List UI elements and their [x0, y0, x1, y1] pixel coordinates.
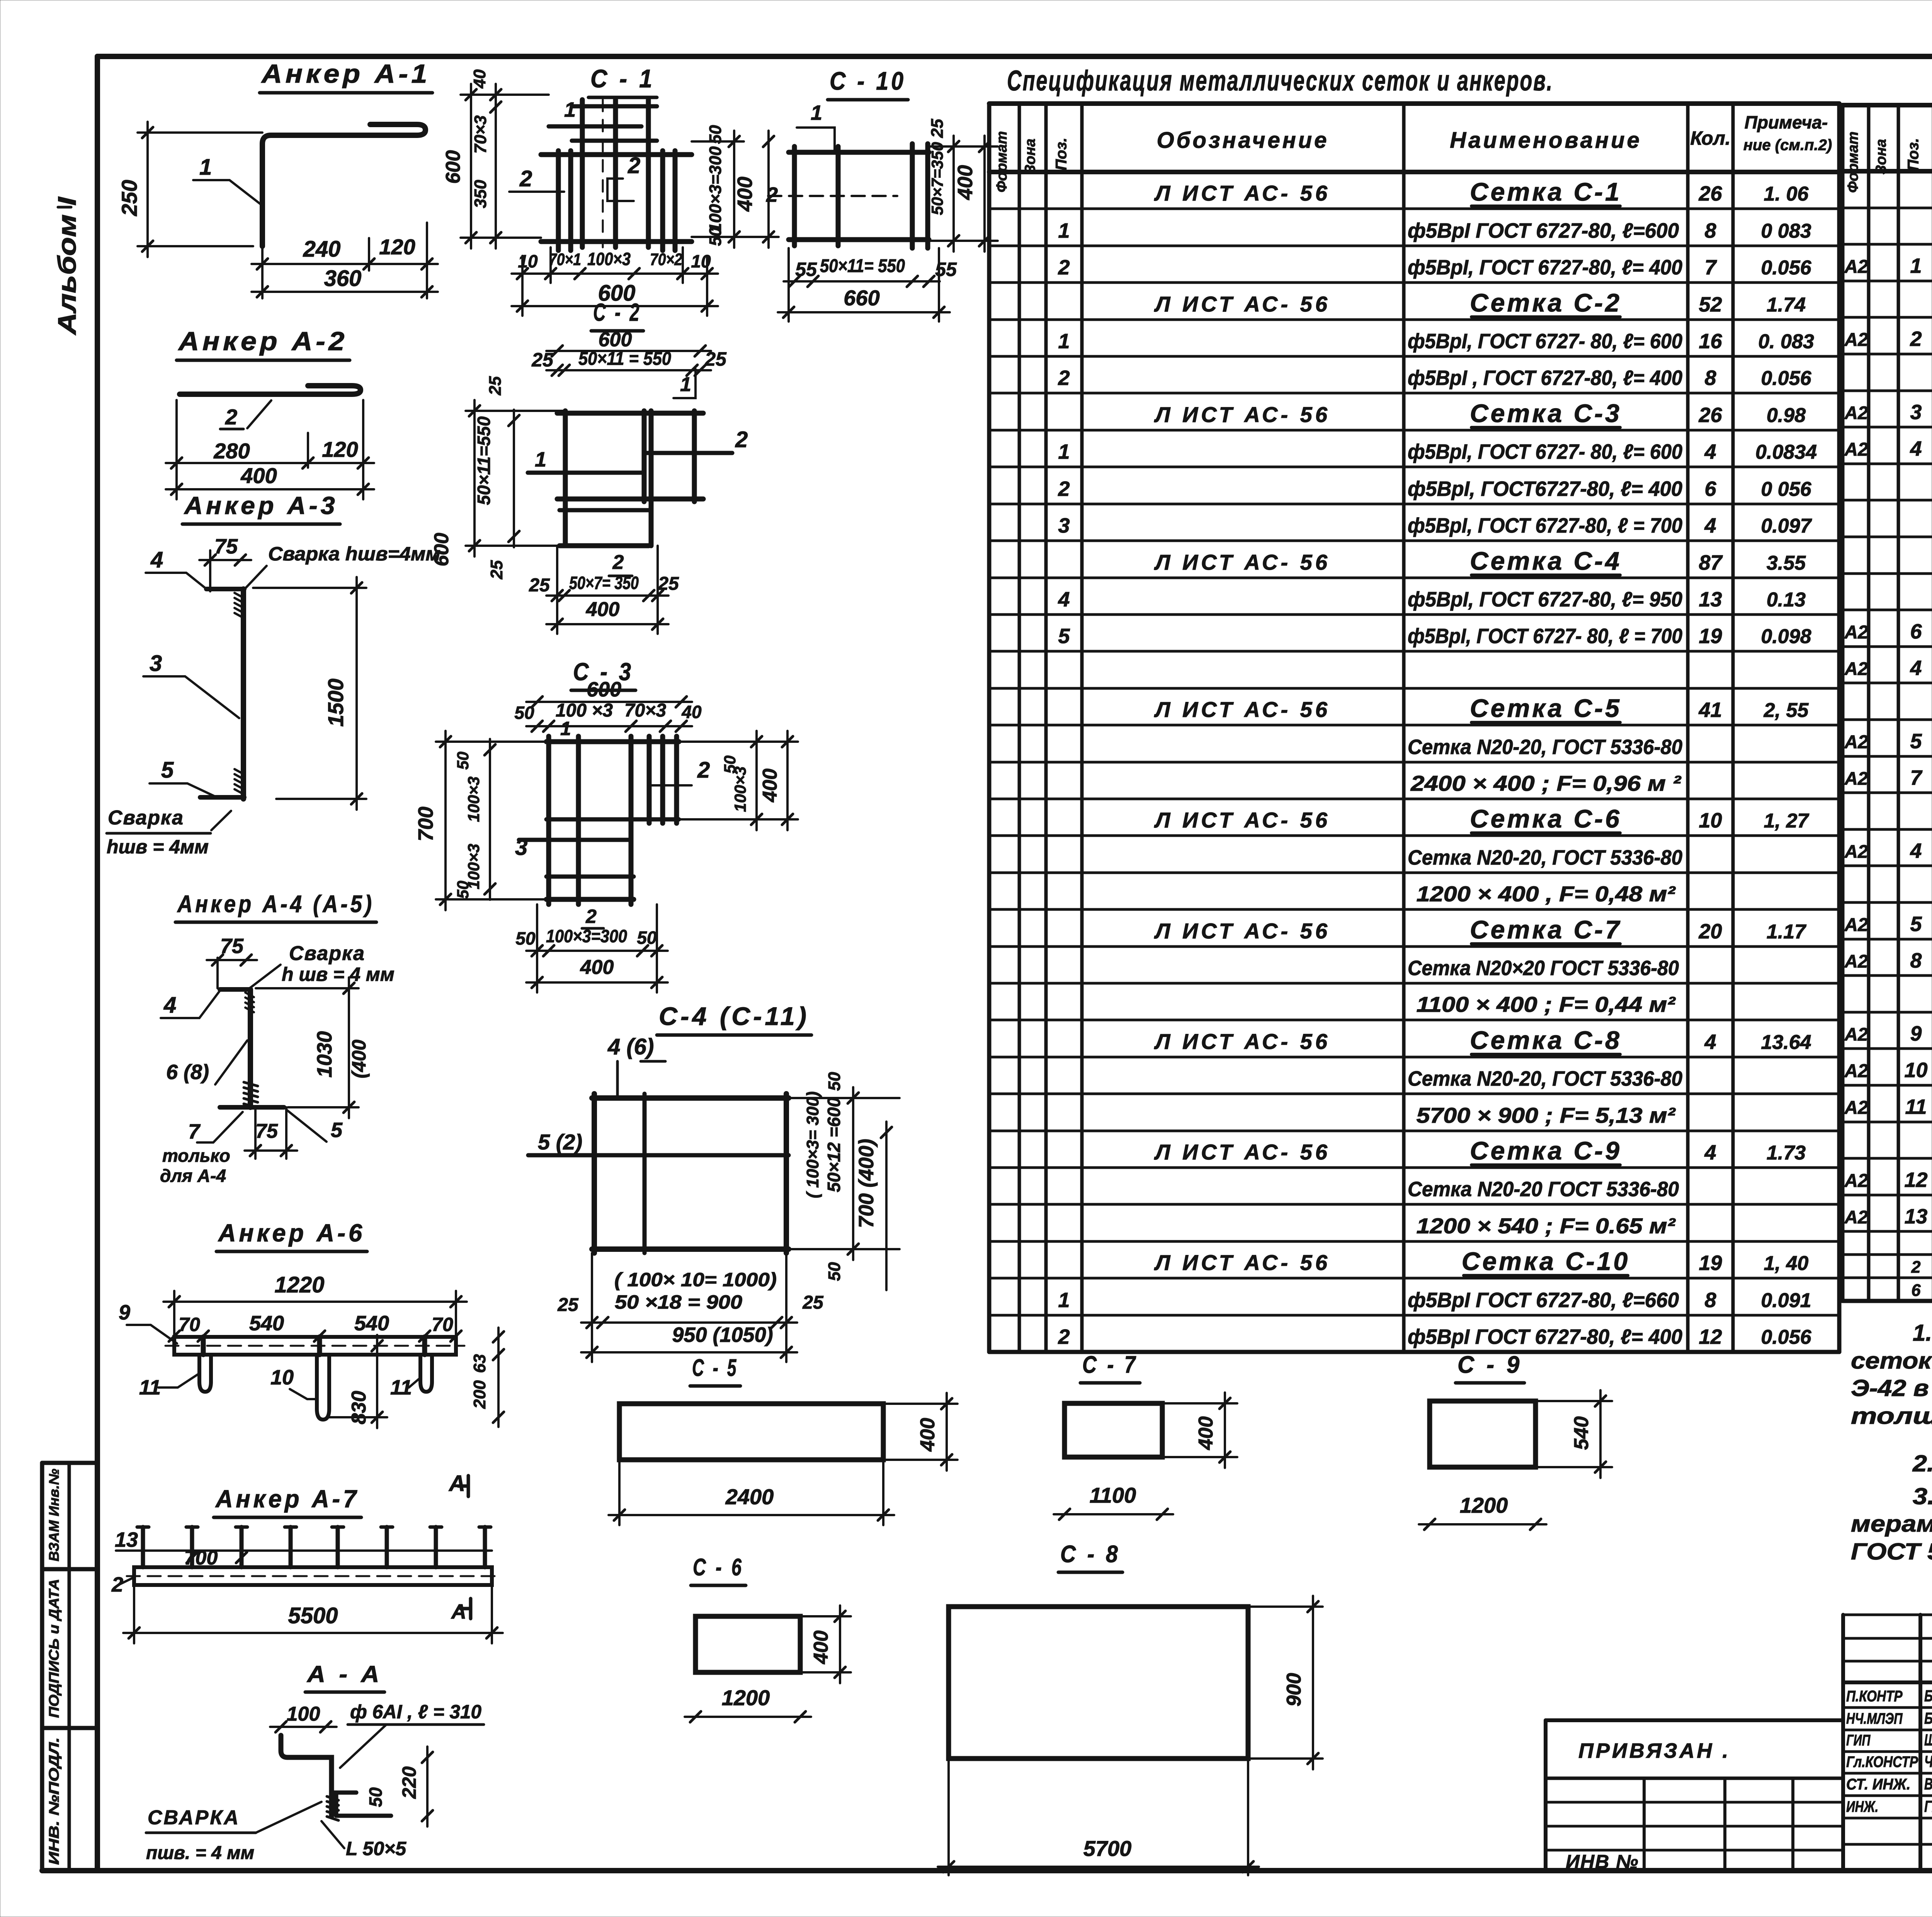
svg-text:А: А	[451, 1600, 466, 1623]
svg-text:2: 2	[225, 405, 237, 429]
svg-text:С - 1: С - 1	[590, 64, 655, 93]
svg-text:8: 8	[1704, 1289, 1716, 1312]
svg-text:П.КОНТР: П.КОНТР	[1846, 1688, 1903, 1705]
svg-text:1: 1	[560, 718, 571, 739]
svg-text:ф5ВрI, ГОСТ 6727- 80, ℓ= 600: ф5ВрI, ГОСТ 6727- 80, ℓ= 600	[1408, 330, 1682, 353]
svg-text:100×3=300: 100×3=300	[546, 926, 627, 946]
svg-text:Альбом I: Альбом I	[53, 196, 81, 335]
svg-text:ф5ВрI, ГОСТ 6727-80, ℓ= 400: ф5ВрI, ГОСТ 6727-80, ℓ= 400	[1408, 256, 1682, 279]
mesh C-3	[414, 658, 798, 993]
mesh C-6	[685, 1554, 851, 1722]
svg-text:сеток с-1 ÷ с-4 производит: сеток с-1 ÷ с-4 производить электродами …	[1851, 1348, 1932, 1374]
svg-text:А2: А2	[1844, 951, 1868, 972]
svg-text:25: 25	[531, 349, 554, 371]
svg-text:900: 900	[1283, 1673, 1305, 1707]
svg-text:4: 4	[1704, 514, 1716, 537]
svg-text:1: 1	[680, 373, 691, 396]
svg-text:3.55: 3.55	[1767, 552, 1806, 574]
svg-text:Сетка С-4: Сетка С-4	[1470, 546, 1622, 575]
svg-text:26: 26	[1698, 182, 1722, 205]
svg-text:Сварка hшв=4мм: Сварка hшв=4мм	[268, 543, 440, 565]
svg-text:2: 2	[1058, 366, 1070, 390]
svg-text:50×7=350: 50×7=350	[928, 142, 946, 215]
right specification table	[1842, 105, 1932, 1301]
svg-text:600: 600	[442, 150, 464, 184]
svg-text:1: 1	[564, 98, 576, 121]
svg-text:А2: А2	[1844, 915, 1868, 935]
svg-text:8: 8	[1704, 219, 1716, 242]
svg-text:540: 540	[354, 1312, 389, 1335]
svg-text:4: 4	[1704, 1030, 1716, 1054]
svg-text:50: 50	[825, 1072, 844, 1091]
svg-text:А2: А2	[1844, 1098, 1868, 1118]
svg-text:ф5ВрI, ГОСТ 6727- 80, ℓ= 600: ф5ВрI, ГОСТ 6727- 80, ℓ= 600	[1408, 440, 1682, 463]
svg-text:3: 3	[1058, 514, 1070, 537]
svg-text:1, 40: 1, 40	[1764, 1252, 1809, 1275]
svg-text:ние (см.п.2): ние (см.п.2)	[1743, 137, 1832, 154]
svg-text:100: 100	[287, 1703, 320, 1725]
svg-text:700 (400): 700 (400)	[855, 1139, 878, 1228]
svg-text:8: 8	[1704, 366, 1716, 390]
svg-text:52: 52	[1699, 293, 1722, 316]
svg-text:2: 2	[1058, 477, 1070, 501]
svg-text:100×3: 100×3	[731, 766, 749, 812]
svg-text:0.0834: 0.0834	[1755, 441, 1817, 463]
svg-text:Сетка С-5: Сетка С-5	[1470, 694, 1622, 722]
mesh C-10	[766, 66, 998, 322]
svg-text:А2: А2	[1844, 1061, 1868, 1081]
svg-text:50×11= 550: 50×11= 550	[820, 256, 905, 276]
svg-text:2: 2	[1058, 256, 1070, 279]
svg-text:СТ. ИНЖ.: СТ. ИНЖ.	[1846, 1776, 1910, 1793]
svg-text:400: 400	[810, 1631, 832, 1665]
svg-text:660: 660	[844, 286, 879, 310]
album spine text	[53, 196, 81, 335]
svg-text:5: 5	[161, 758, 174, 783]
svg-text:ф5ВрI, ГОСТ 6727-80, ℓ= 950: ф5ВрI, ГОСТ 6727-80, ℓ= 950	[1408, 588, 1682, 611]
svg-text:Обозначение: Обозначение	[1157, 128, 1329, 153]
svg-text:1030: 1030	[313, 1031, 336, 1078]
svg-text:70: 70	[432, 1314, 453, 1335]
svg-text:5: 5	[1910, 913, 1922, 936]
svg-text:0 056: 0 056	[1761, 478, 1811, 501]
svg-text:4: 4	[1704, 440, 1716, 463]
svg-text:2: 2	[612, 551, 624, 574]
svg-text:1: 1	[1910, 254, 1922, 278]
title block signatures table	[1843, 1615, 1932, 1871]
svg-text:Спецификация металлических с: Спецификация металлических сеток и анкер…	[1007, 65, 1553, 97]
svg-text:А2: А2	[1844, 768, 1868, 789]
svg-text:Поз.: Поз.	[1905, 138, 1922, 171]
svg-text:1500: 1500	[323, 679, 348, 727]
svg-text:3: 3	[150, 651, 162, 676]
svg-text:А2: А2	[1844, 659, 1868, 679]
svg-text:Наименование: Наименование	[1450, 128, 1641, 153]
svg-text:5700: 5700	[1083, 1836, 1132, 1861]
svg-text:Л ИСТ АС- 56: Л ИСТ АС- 56	[1154, 1029, 1330, 1054]
svg-text:7: 7	[188, 1120, 201, 1143]
svg-text:1. Сварку металлических эле: 1. Сварку металлических элементов армату…	[1913, 1320, 1932, 1346]
svg-text:50: 50	[366, 1787, 386, 1807]
svg-text:70×1: 70×1	[549, 250, 581, 269]
svg-text:С - 6: С - 6	[693, 1554, 744, 1581]
svg-text:А2: А2	[1844, 622, 1868, 643]
svg-text:830: 830	[348, 1391, 370, 1425]
svg-text:Анкер А-1: Анкер А-1	[261, 59, 430, 89]
svg-text:50: 50	[825, 1262, 844, 1281]
svg-text:50: 50	[454, 752, 472, 770]
anchor A-2	[166, 327, 374, 499]
svg-text:50×11 = 550: 50×11 = 550	[578, 349, 671, 369]
mesh C-7	[1054, 1352, 1237, 1520]
svg-text:4: 4	[1910, 839, 1922, 862]
svg-text:ГИП: ГИП	[1846, 1732, 1871, 1749]
svg-text:Сетка С-6: Сетка С-6	[1470, 804, 1622, 833]
svg-text:8: 8	[1910, 949, 1922, 972]
svg-text:А2: А2	[1844, 841, 1868, 862]
svg-text:10: 10	[270, 1366, 294, 1389]
svg-text:С - 5: С - 5	[692, 1355, 738, 1381]
svg-text:НЧ.МЛЭП: НЧ.МЛЭП	[1846, 1710, 1903, 1727]
svg-text:Кол.: Кол.	[1690, 128, 1730, 149]
svg-text:280: 280	[213, 439, 250, 463]
svg-text:3: 3	[1910, 401, 1922, 424]
svg-text:0.056: 0.056	[1761, 367, 1811, 390]
svg-text:ф5ВрI, ГОСТ 6727-80, ℓ = 700: ф5ВрI, ГОСТ 6727-80, ℓ = 700	[1408, 514, 1682, 537]
anchor A-6	[119, 1219, 504, 1428]
svg-text:Сетка С-9: Сетка С-9	[1470, 1136, 1622, 1165]
svg-text:С - 10: С - 10	[830, 66, 906, 95]
svg-text:100×3: 100×3	[587, 249, 631, 269]
svg-text:А2: А2	[1844, 732, 1868, 752]
svg-text:540: 540	[1570, 1416, 1593, 1450]
svg-text:ф5ВрI, ГОСТ 6727- 80, ℓ = 700: ф5ВрI, ГОСТ 6727- 80, ℓ = 700	[1408, 625, 1682, 648]
svg-text:19: 19	[1699, 1251, 1722, 1275]
svg-text:40: 40	[681, 702, 702, 722]
svg-text:А: А	[448, 1471, 465, 1496]
svg-text:360: 360	[324, 266, 362, 291]
svg-text:250: 250	[117, 180, 141, 216]
svg-text:240: 240	[303, 237, 341, 262]
section A-A	[146, 1661, 484, 1863]
svg-text:0.091: 0.091	[1761, 1289, 1811, 1312]
svg-text:А2: А2	[1844, 403, 1868, 423]
svg-text:Зона: Зона	[1022, 139, 1039, 174]
svg-text:120: 120	[379, 235, 415, 259]
svg-text:ф 6АI , ℓ = 310: ф 6АI , ℓ = 310	[350, 1701, 481, 1723]
mesh C-8	[938, 1541, 1323, 1875]
svg-text:Э-42 в соответствии с ГО: Э-42 в соответствии с ГОСТ 10922-75 и СН…	[1851, 1375, 1932, 1401]
svg-text:Л ИСТ АС- 56: Л ИСТ АС- 56	[1154, 292, 1330, 316]
svg-text:1.74: 1.74	[1767, 294, 1806, 316]
mesh C-1	[442, 64, 779, 316]
svg-text:25: 25	[928, 119, 947, 138]
svg-text:2: 2	[766, 183, 778, 206]
svg-text:2: 2	[519, 166, 532, 191]
svg-text:ВОЛЬФЛЕНОК: ВОЛЬФЛЕНОК	[1924, 1775, 1932, 1793]
svg-text:1: 1	[1058, 440, 1070, 463]
svg-text:1100 × 400 ; F= 0,44 м²: 1100 × 400 ; F= 0,44 м²	[1417, 992, 1676, 1016]
svg-text:50: 50	[454, 881, 472, 899]
svg-text:1.73: 1.73	[1767, 1142, 1806, 1164]
svg-text:5: 5	[1910, 730, 1922, 753]
svg-text:ИНЖ.: ИНЖ.	[1846, 1798, 1878, 1815]
svg-text:220: 220	[398, 1766, 420, 1799]
svg-text:Л ИСТ АС- 56: Л ИСТ АС- 56	[1154, 697, 1330, 722]
svg-text:120: 120	[322, 437, 358, 461]
svg-text:87: 87	[1699, 551, 1723, 574]
svg-text:25: 25	[487, 560, 506, 579]
svg-text:4: 4	[1910, 437, 1922, 460]
svg-text:Формат: Формат	[994, 131, 1010, 192]
svg-text:50×12 =600: 50×12 =600	[824, 1097, 844, 1192]
svg-text:400: 400	[954, 165, 977, 200]
left margin stamp boxes	[42, 1463, 97, 1871]
svg-text:ПРИВЯЗАН .: ПРИВЯЗАН .	[1578, 1739, 1730, 1762]
svg-text:100×3=300: 100×3=300	[706, 146, 725, 232]
svg-text:2: 2	[628, 153, 640, 178]
svg-text:50: 50	[515, 928, 536, 948]
svg-text:600: 600	[599, 329, 632, 351]
svg-text:ИНВ. №ПОДЛ.: ИНВ. №ПОДЛ.	[46, 1737, 62, 1865]
svg-text:26: 26	[1698, 403, 1722, 427]
sheet heading	[1007, 65, 1553, 97]
privyazan block	[1546, 1720, 1843, 1873]
svg-text:4: 4	[163, 993, 176, 1018]
svg-text:6: 6	[1911, 1281, 1921, 1300]
svg-text:Гл.КОНСТР: Гл.КОНСТР	[1846, 1754, 1918, 1771]
svg-text:6: 6	[1704, 477, 1716, 501]
svg-text:5 (2): 5 (2)	[538, 1130, 582, 1154]
svg-text:1200 × 540 ; F= 0.65 м²: 1200 × 540 ; F= 0.65 м²	[1417, 1214, 1676, 1238]
svg-text:Сварка: Сварка	[108, 807, 184, 829]
svg-text:( 100× 10= 1000): ( 100× 10= 1000)	[614, 1269, 777, 1290]
svg-text:Л ИСТ АС- 56: Л ИСТ АС- 56	[1154, 181, 1330, 205]
svg-text:75: 75	[214, 535, 238, 558]
svg-text:950 (1050): 950 (1050)	[672, 1323, 773, 1347]
svg-text:70×2: 70×2	[650, 250, 682, 269]
svg-text:СВАРКА: СВАРКА	[148, 1806, 240, 1829]
svg-text:А2: А2	[1844, 439, 1868, 460]
svg-text:350: 350	[471, 180, 490, 208]
svg-text:2: 2	[1910, 327, 1922, 351]
svg-text:25: 25	[557, 1295, 579, 1315]
svg-text:ИНВ №: ИНВ №	[1566, 1851, 1639, 1873]
svg-text:600: 600	[430, 533, 453, 567]
svg-text:ГОСТ 5336-80 ( ф ар-ры 2 мм,: ГОСТ 5336-80 ( ф ар-ры 2 мм, вес 1 м² се…	[1851, 1539, 1932, 1565]
svg-text:Сетка N20-20 ГОСТ 5336-80: Сетка N20-20 ГОСТ 5336-80	[1408, 1178, 1679, 1201]
svg-text:25: 25	[802, 1292, 824, 1313]
svg-text:9: 9	[119, 1301, 130, 1324]
svg-text:1: 1	[811, 101, 822, 124]
svg-text:2: 2	[697, 758, 710, 783]
svg-text:1, 27: 1, 27	[1764, 810, 1810, 832]
svg-text:Сетка С-3: Сетка С-3	[1470, 399, 1622, 427]
svg-text:Л ИСТ АС- 56: Л ИСТ АС- 56	[1154, 1140, 1330, 1164]
svg-text:2: 2	[585, 906, 597, 927]
svg-text:700: 700	[414, 807, 437, 841]
svg-text:только: только	[162, 1146, 230, 1166]
svg-text:20: 20	[1698, 920, 1722, 943]
mesh C-4 C-11	[528, 1002, 900, 1362]
svg-text:1200: 1200	[1460, 1493, 1508, 1517]
svg-text:ПОДПИСЬ и ДАТА: ПОДПИСЬ и ДАТА	[46, 1579, 62, 1718]
svg-text:11: 11	[1905, 1095, 1927, 1119]
svg-text:Л ИСТ АС- 56: Л ИСТ АС- 56	[1154, 1250, 1330, 1275]
svg-text:1: 1	[1058, 1289, 1070, 1312]
svg-text:С - 8: С - 8	[1060, 1541, 1121, 1568]
svg-text:Формат: Формат	[1845, 131, 1861, 193]
svg-text:540: 540	[249, 1312, 284, 1335]
svg-text:200: 200	[470, 1380, 489, 1409]
svg-text:1. 06: 1. 06	[1764, 183, 1809, 205]
svg-text:3. Арматурные сетки С-5 ÷ С-: 3. Арматурные сетки С-5 ÷ С-9 вырезаются…	[1913, 1483, 1932, 1509]
svg-text:Анкер А-3: Анкер А-3	[184, 492, 338, 519]
svg-text:50: 50	[514, 703, 534, 723]
svg-text:ф5ВрI , ГОСТ 6727-80, ℓ= 400: ф5ВрI , ГОСТ 6727-80, ℓ= 400	[1408, 366, 1682, 390]
svg-text:0.098: 0.098	[1761, 625, 1811, 648]
svg-text:50 ×18 = 900: 50 ×18 = 900	[615, 1291, 742, 1313]
svg-text:1: 1	[1058, 330, 1070, 353]
svg-text:(400: (400	[348, 1040, 370, 1078]
svg-text:25: 25	[486, 376, 505, 395]
svg-text:16: 16	[1699, 330, 1722, 353]
svg-text:4: 4	[1910, 657, 1922, 679]
svg-text:41: 41	[1698, 698, 1722, 722]
svg-text:25: 25	[704, 348, 727, 370]
svg-text:600: 600	[587, 678, 621, 701]
svg-text:L 50×5: L 50×5	[346, 1838, 406, 1859]
svg-text:2400: 2400	[725, 1485, 774, 1509]
svg-text:7: 7	[1704, 256, 1717, 279]
svg-text:25: 25	[529, 575, 550, 596]
svg-text:ф5ВрI ГОСТ 6727-80, ℓ=600: ф5ВрI ГОСТ 6727-80, ℓ=600	[1408, 219, 1679, 242]
svg-text:400: 400	[1195, 1416, 1217, 1451]
svg-text:12: 12	[1699, 1325, 1722, 1348]
svg-text:2: 2	[1911, 1258, 1920, 1277]
svg-text:400: 400	[580, 956, 614, 979]
mesh C-2	[430, 298, 748, 634]
svg-text:Анкер А-6: Анкер А-6	[218, 1219, 365, 1247]
svg-text:ф5ВрI, ГОСТ6727-80, ℓ= 400: ф5ВрI, ГОСТ6727-80, ℓ= 400	[1408, 477, 1682, 501]
svg-text:5: 5	[331, 1119, 343, 1142]
svg-text:Сетка С-2: Сетка С-2	[1470, 288, 1622, 317]
svg-text:0.056: 0.056	[1761, 1326, 1811, 1348]
svg-text:400: 400	[733, 177, 757, 212]
svg-text:Сетка С-1: Сетка С-1	[1470, 177, 1622, 206]
svg-text:10: 10	[1699, 809, 1722, 832]
svg-text:2. В графе„ Примечание” дана: 2. В графе„ Примечание” дана масса 1 поз…	[1912, 1451, 1932, 1476]
svg-text:13.64: 13.64	[1761, 1031, 1811, 1054]
svg-text:0.097: 0.097	[1761, 515, 1812, 537]
svg-text:0. 083: 0. 083	[1758, 330, 1814, 353]
svg-text:h шв = 4 мм: h шв = 4 мм	[282, 964, 395, 985]
svg-text:1200 × 400 , F= 0,48 м²: 1200 × 400 , F= 0,48 м²	[1417, 882, 1676, 906]
svg-text:А2: А2	[1844, 1207, 1868, 1227]
svg-text:4: 4	[150, 547, 163, 572]
svg-text:А - А: А - А	[306, 1661, 383, 1687]
svg-text:2, 55: 2, 55	[1764, 699, 1809, 722]
svg-text:А2: А2	[1844, 257, 1868, 277]
svg-text:50×7= 350: 50×7= 350	[569, 573, 639, 593]
svg-text:Анкер А-2: Анкер А-2	[178, 327, 348, 356]
svg-text:Л ИСТ АС- 56: Л ИСТ АС- 56	[1154, 402, 1330, 427]
svg-text:ф5ВрI ГОСТ 6727-80, ℓ=660: ф5ВрI ГОСТ 6727-80, ℓ=660	[1408, 1289, 1679, 1312]
anchor A-7	[111, 1471, 503, 1643]
svg-text:Сетка N20-20, ГОСТ 5336-80: Сетка N20-20, ГОСТ 5336-80	[1408, 1067, 1682, 1090]
svg-text:5: 5	[1058, 625, 1070, 648]
svg-text:4: 4	[1704, 1141, 1716, 1164]
svg-text:А2: А2	[1844, 1171, 1868, 1191]
svg-text:2: 2	[1058, 1325, 1070, 1348]
svg-text:Сетка N20-20, ГОСТ 5336-80: Сетка N20-20, ГОСТ 5336-80	[1408, 846, 1682, 869]
svg-text:толщина шва 4 мм.: толщина шва 4 мм.	[1851, 1403, 1932, 1429]
svg-text:75: 75	[255, 1120, 278, 1142]
svg-text:Л ИСТ АС- 56: Л ИСТ АС- 56	[1154, 808, 1330, 832]
svg-text:Зона: Зона	[1873, 139, 1889, 175]
anchor A-3	[107, 492, 440, 858]
svg-text:1100: 1100	[1090, 1483, 1136, 1507]
svg-text:70×3: 70×3	[624, 700, 666, 721]
svg-text:1200: 1200	[722, 1685, 770, 1710]
svg-text:Анкер А-7: Анкер А-7	[215, 1485, 359, 1513]
svg-text:1: 1	[535, 448, 546, 471]
svg-text:7: 7	[1910, 766, 1923, 789]
svg-text:пшв. = 4 мм: пшв. = 4 мм	[146, 1843, 254, 1863]
svg-text:12: 12	[1904, 1168, 1927, 1192]
svg-text:700: 700	[184, 1547, 218, 1569]
svg-text:63: 63	[470, 1354, 489, 1373]
svg-text:0.98: 0.98	[1767, 404, 1806, 427]
notes paragraph	[1851, 1320, 1932, 1565]
svg-text:ГИНДЛЕВСКАЯ: ГИНДЛЕВСКАЯ	[1924, 1797, 1932, 1815]
svg-text:1: 1	[1058, 219, 1070, 242]
svg-text:3: 3	[515, 835, 527, 860]
svg-text:( 100×3= 300): ( 100×3= 300)	[803, 1091, 822, 1198]
svg-text:С - 9: С - 9	[1458, 1352, 1522, 1378]
svg-text:Примеча-: Примеча-	[1745, 112, 1828, 133]
svg-text:100×3: 100×3	[464, 776, 483, 822]
svg-text:мерами, указанными на чертеже: мерами, указанными на чертеже из сетки N…	[1851, 1511, 1932, 1537]
svg-text:400: 400	[240, 463, 277, 488]
svg-text:5700 × 900 ; F= 5,13 м²: 5700 × 900 ; F= 5,13 м²	[1417, 1103, 1676, 1127]
svg-text:4: 4	[1058, 588, 1070, 611]
svg-text:70: 70	[179, 1314, 200, 1335]
svg-text:13: 13	[1905, 1205, 1928, 1228]
svg-text:А2: А2	[1844, 330, 1868, 350]
svg-text:9: 9	[1910, 1022, 1922, 1045]
svg-text:13: 13	[115, 1528, 138, 1551]
svg-text:Л ИСТ АС- 56: Л ИСТ АС- 56	[1154, 919, 1330, 943]
svg-text:400: 400	[917, 1418, 939, 1452]
svg-text:40: 40	[470, 69, 489, 89]
svg-text:Сетка N20-20, ГОСТ 5336-80: Сетка N20-20, ГОСТ 5336-80	[1408, 735, 1682, 759]
svg-text:ф5ВрI ГОСТ 6727-80, ℓ= 400: ф5ВрI ГОСТ 6727-80, ℓ= 400	[1408, 1325, 1682, 1348]
svg-text:С - 7: С - 7	[1082, 1352, 1138, 1378]
svg-text:400: 400	[759, 769, 781, 803]
svg-text:Л ИСТ АС- 56: Л ИСТ АС- 56	[1154, 550, 1330, 574]
svg-text:С - 2: С - 2	[593, 298, 641, 326]
svg-text:С-4 (С-11): С-4 (С-11)	[659, 1002, 810, 1030]
svg-text:Поз.: Поз.	[1053, 138, 1070, 170]
svg-text:Сварка: Сварка	[289, 942, 365, 965]
svg-text:0.056: 0.056	[1761, 257, 1811, 279]
svg-text:Анкер А-4 (А-5): Анкер А-4 (А-5)	[177, 891, 374, 918]
svg-text:6 (8): 6 (8)	[166, 1061, 209, 1084]
svg-text:БУХАРИНА: БУХАРИНА	[1924, 1687, 1932, 1705]
left specification table	[989, 104, 1839, 1352]
svg-text:ШЕЛЕВИЛЯ: ШЕЛЕВИЛЯ	[1924, 1731, 1932, 1749]
